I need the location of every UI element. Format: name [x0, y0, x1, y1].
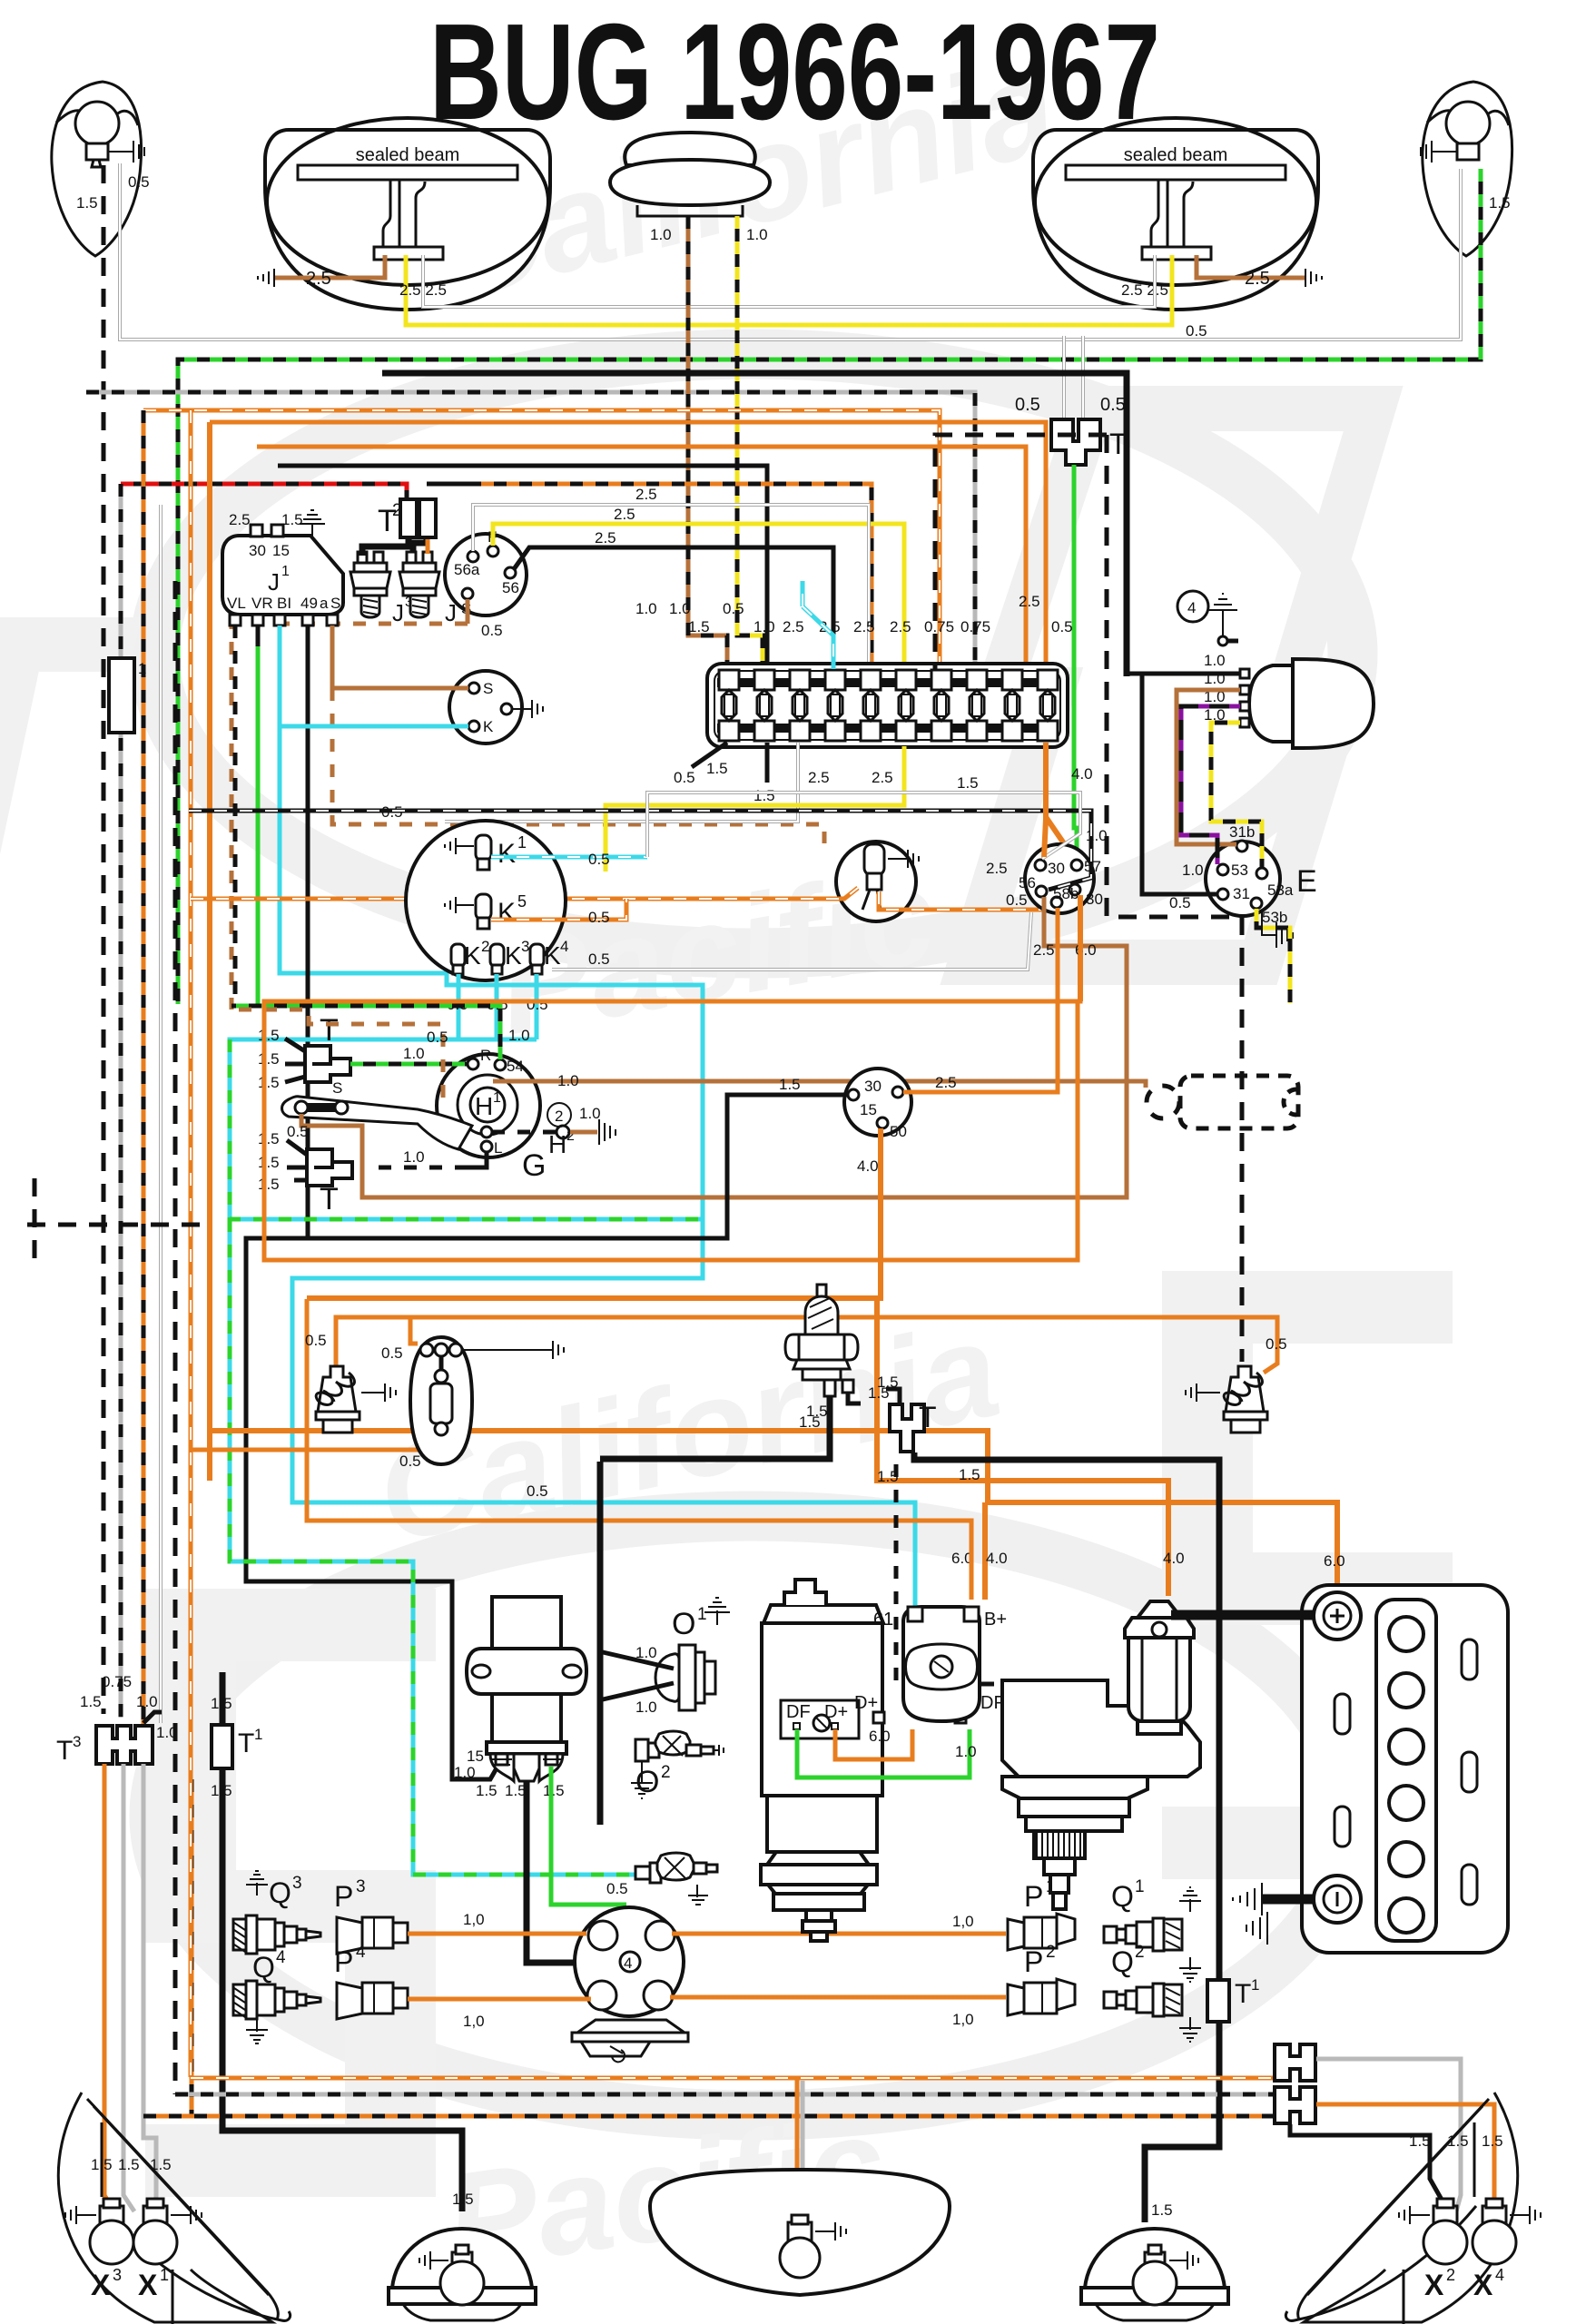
svg-text:3: 3: [292, 1874, 302, 1893]
spark plug Q1: [1104, 1887, 1201, 1982]
svg-text:0.5: 0.5: [1006, 891, 1028, 909]
svg-text:0.5: 0.5: [427, 1029, 448, 1046]
wire cyan lamps down: [230, 974, 537, 1219]
svg-text:1.0: 1.0: [669, 600, 691, 617]
spark plug Q3: [246, 1871, 268, 1896]
wire brown 0.5 stalk: [301, 1114, 362, 1197]
svg-text:2: 2: [392, 501, 402, 520]
svg-text:0.75: 0.75: [960, 618, 990, 635]
svg-text:56: 56: [1019, 874, 1036, 891]
svg-text:0.5: 0.5: [723, 600, 744, 617]
svg-text:0.5: 0.5: [527, 996, 548, 1013]
svg-text:2: 2: [661, 1763, 671, 1782]
svg-text:0.5: 0.5: [305, 1332, 327, 1349]
svg-text:2.5: 2.5: [635, 486, 657, 503]
wire orange-black dashed 0.75: [143, 410, 940, 669]
switch headlight: [1025, 844, 1094, 913]
lamp license plate right: [1085, 2229, 1225, 2288]
wire cyan-white 0.5 into fuse: [803, 606, 833, 669]
wire black-green dashed right turn signal: [178, 169, 1481, 1004]
svg-text:B+: B+: [984, 1610, 1007, 1630]
spark plug Q2: [1104, 1984, 1201, 2042]
generator C: [763, 1605, 883, 1623]
svg-text:1.0: 1.0: [136, 1693, 158, 1710]
svg-text:0.75: 0.75: [102, 1673, 132, 1690]
wire green coil terminal 1: [551, 1767, 626, 1905]
svg-text:T: T: [919, 1401, 937, 1433]
wire black L: [468, 1152, 487, 1167]
connector H1 bottom: [1275, 2044, 1315, 2081]
wire orange-white dashed left: [189, 410, 193, 2077]
wire white headlights high beam: [423, 255, 1155, 307]
wire black brake T: [848, 1389, 900, 1403]
lamp X3: [65, 2199, 133, 2264]
svg-text:P: P: [334, 1880, 353, 1913]
lamp fuel gauge: [836, 842, 916, 921]
connector T lower: [307, 1149, 352, 1186]
fuel filter: [1125, 1601, 1194, 1638]
fender rear left: [58, 2093, 290, 2324]
wire black dashed left stub: [27, 1178, 211, 1271]
svg-text:2: 2: [555, 1108, 563, 1125]
svg-text:2.5: 2.5: [595, 529, 616, 547]
svg-text:O: O: [672, 1607, 695, 1641]
wire black-yellow wiper: [1211, 723, 1262, 868]
svg-text:E: E: [1296, 864, 1317, 899]
svg-text:1: 1: [1135, 1877, 1145, 1896]
fuel tank sender: [650, 2170, 950, 2295]
connector H2 bottom: [1275, 2087, 1315, 2123]
svg-text:D+: D+: [854, 1693, 878, 1713]
relay circle headlight dimmer relay: [445, 534, 527, 615]
wire black engine frame vertical: [597, 1462, 604, 1825]
switch J3: [350, 563, 390, 596]
svg-text:31: 31: [1233, 885, 1250, 902]
svg-text:4: 4: [276, 1948, 286, 1967]
svg-text:4.0: 4.0: [986, 1550, 1008, 1567]
wire grey-black dashed to T3: [119, 484, 123, 1718]
wire fuel sender orange: [795, 2078, 800, 2222]
svg-text:S: S: [483, 680, 493, 697]
generator C: [761, 1580, 883, 1941]
svg-text:Q: Q: [252, 1951, 275, 1984]
switch brake light: [817, 1285, 826, 1299]
wire brown dashed 0.5: [231, 1009, 443, 1098]
cable end P1: [1008, 1914, 1075, 1950]
wire brown ground left headlight: [274, 255, 385, 278]
ground E: [1262, 910, 1293, 948]
switch headlight switch: [1019, 844, 1103, 913]
svg-text:2: 2: [1046, 1943, 1056, 1962]
starter motor B: [1002, 1680, 1200, 1777]
svg-text:1.0: 1.0: [635, 1644, 657, 1661]
svg-text:1: 1: [281, 564, 290, 579]
svg-text:K: K: [497, 839, 516, 869]
lamps K2 K3 K4: [451, 944, 465, 974]
svg-text:1.0: 1.0: [754, 618, 775, 635]
distributor: [572, 1907, 688, 2062]
battery A: [1302, 1585, 1508, 1953]
wire bottom bundle orange-white: [191, 2076, 1273, 2081]
fuel gauge lamp circle: [836, 842, 919, 921]
stalk S: [282, 1097, 473, 1149]
spark plug Q2: [1104, 1984, 1164, 2016]
svg-text:1.5: 1.5: [1409, 2132, 1431, 2150]
svg-text:1.0: 1.0: [635, 600, 657, 617]
wire bottom bundle grey-black: [175, 2093, 1276, 2097]
svg-text:1.5: 1.5: [476, 1782, 497, 1799]
svg-text:T: T: [320, 1013, 339, 1048]
wire orange plug3: [408, 1932, 586, 1936]
spark plug Q3: [233, 1871, 320, 1954]
svg-text:1.0: 1.0: [1182, 862, 1204, 879]
svg-text:4.0: 4.0: [857, 1157, 879, 1175]
svg-text:30: 30: [1048, 860, 1065, 877]
svg-text:4: 4: [560, 938, 568, 955]
dashed black box wiper: [1107, 435, 1242, 1362]
svg-text:15: 15: [467, 1748, 484, 1765]
wire brown dashed J2-S: [231, 624, 468, 1009]
lamp K2: [451, 944, 465, 967]
wire black 1.0 to 31: [1142, 676, 1217, 894]
wire white left 0.75: [159, 505, 163, 1723]
wire green-black 54 up: [231, 1006, 500, 1059]
svg-text:2.5: 2.5: [808, 769, 830, 786]
wire orange generator D+: [835, 1729, 912, 1759]
svg-text:1.5: 1.5: [806, 1403, 828, 1420]
relay J2: [399, 563, 439, 596]
svg-text:1.5: 1.5: [258, 1074, 280, 1091]
svg-text:61: 61: [873, 1610, 893, 1630]
svg-text:BUG 1966-1967: BUG 1966-1967: [429, 0, 1160, 148]
cable end P3: [337, 1917, 408, 1954]
wire brown wiper: [1177, 690, 1240, 844]
svg-text:X: X: [91, 2269, 111, 2301]
wire green 1.0 to light switch: [1074, 465, 1077, 861]
fuel filter component: [1125, 1601, 1194, 1734]
wire black wiper feed: [1127, 674, 1240, 894]
svg-text:1.5: 1.5: [452, 2191, 474, 2208]
lamp interior light W1: [410, 1337, 564, 1464]
wire black 1.5 ignition 15: [246, 1095, 848, 1779]
svg-text:0.5: 0.5: [1051, 618, 1073, 635]
wire black from 56: [514, 547, 833, 669]
wires out of fuse box bottom: [692, 743, 727, 767]
lamp X3 tail light: [100, 2206, 123, 2224]
wire orange to X4: [1316, 2104, 1494, 2211]
svg-text:1,0: 1,0: [463, 2013, 485, 2030]
connector T1 right: [1207, 1980, 1229, 2022]
svg-text:a: a: [320, 595, 329, 612]
wire cyan-white to K1: [491, 855, 647, 860]
turn signal front right: [1421, 82, 1512, 256]
wire grey-black dashed 0.75: [86, 392, 975, 669]
wire orange B+ run: [307, 1299, 971, 1600]
svg-text:1: 1: [1251, 1976, 1259, 1994]
svg-text:sealed beam: sealed beam: [356, 145, 460, 165]
svg-text:2: 2: [1135, 1943, 1145, 1962]
svg-text:1.5: 1.5: [118, 2156, 140, 2173]
svg-text:3: 3: [73, 1733, 81, 1750]
wires T2 to J3: [362, 537, 427, 556]
connector T3: [96, 1726, 153, 1764]
lamp K5 turn indicator: [476, 894, 491, 920]
wire orange plug4: [408, 1997, 591, 2002]
starter B: [1002, 1680, 1200, 1909]
svg-text:K: K: [505, 941, 522, 970]
svg-text:T: T: [238, 1728, 254, 1758]
svg-text:1: 1: [493, 1090, 501, 1106]
svg-text:56a: 56a: [454, 561, 480, 578]
wire orange 2.5 ignition 30: [903, 1001, 1058, 1092]
svg-text:2: 2: [481, 938, 489, 955]
svg-text:1,0: 1,0: [952, 1913, 974, 1930]
svg-text:1,0: 1,0: [463, 1911, 485, 1928]
wire brown ground right headlight: [1197, 255, 1305, 278]
cable end P2: [1008, 1979, 1075, 2015]
fender rear left: [58, 2093, 272, 2322]
svg-text:2.5: 2.5: [935, 1074, 957, 1091]
svg-text:0.5: 0.5: [1266, 1335, 1287, 1353]
lamp license dome 1: [389, 2229, 536, 2320]
svg-text:1.5: 1.5: [76, 194, 98, 212]
switch ignition: [844, 1068, 911, 1136]
svg-text:1,0: 1,0: [952, 2011, 974, 2028]
lamp X4: [1473, 2199, 1541, 2264]
lamp K1: [445, 835, 491, 870]
svg-text:1.5: 1.5: [877, 1468, 899, 1485]
svg-text:4: 4: [1495, 2266, 1504, 2284]
svg-text:15: 15: [860, 1101, 877, 1118]
svg-text:H: H: [475, 1092, 493, 1120]
svg-text:1.0: 1.0: [403, 1148, 425, 1166]
svg-text:2.5: 2.5: [1245, 269, 1270, 289]
connector T2 double: [400, 499, 417, 537]
svg-text:T: T: [1235, 1979, 1251, 2009]
wire orange to K5: [491, 899, 626, 920]
svg-text:1.5: 1.5: [1482, 2132, 1503, 2150]
wire black 30 heavy: [382, 373, 1127, 676]
svg-text:6.0: 6.0: [869, 1728, 891, 1745]
connector T brake: [890, 1404, 924, 1452]
svg-text:1.0: 1.0: [650, 226, 672, 243]
svg-text:3: 3: [521, 938, 529, 955]
svg-text:0.5: 0.5: [287, 1123, 309, 1140]
wire orange battery 6.0 run: [210, 1431, 1337, 1614]
wire brown H2 ground: [570, 1130, 597, 1135]
wiper motor V: [1249, 665, 1293, 742]
wire brown J1-S to dimmer S: [332, 625, 468, 688]
switch J3b: [399, 552, 466, 626]
svg-text:P: P: [1024, 1880, 1043, 1913]
svg-text:1.5: 1.5: [1489, 194, 1511, 212]
svg-text:6.0: 6.0: [1324, 1552, 1345, 1570]
horn: [610, 133, 770, 216]
svg-text:1.0: 1.0: [746, 226, 768, 243]
svg-text:1.5: 1.5: [959, 1466, 980, 1483]
svg-text:1.5: 1.5: [706, 760, 728, 777]
svg-text:Q: Q: [1111, 1945, 1134, 1978]
svg-text:49: 49: [300, 595, 318, 612]
svg-text:DF: DF: [786, 1702, 811, 1722]
svg-text:2.5 2.5: 2.5 2.5: [1121, 281, 1168, 299]
sender oil pressure switch: [635, 1866, 650, 1879]
svg-text:1.0: 1.0: [403, 1045, 425, 1062]
svg-text:L: L: [494, 1139, 502, 1157]
svg-text:1.0: 1.0: [635, 1699, 657, 1716]
fender rear right: [1285, 2093, 1517, 2324]
cable end P4: [337, 1983, 408, 2019]
wire black to X2: [1290, 2124, 1445, 2206]
switch E wiper switch: [1206, 823, 1317, 926]
svg-text:4.0: 4.0: [1071, 765, 1093, 783]
svg-text:2: 2: [1446, 2266, 1455, 2284]
svg-text:1.0: 1.0: [508, 1027, 530, 1044]
svg-text:T: T: [56, 1736, 73, 1766]
svg-text:2.5: 2.5: [783, 618, 804, 635]
svg-text:4: 4: [356, 1943, 366, 1962]
switch dimmer circle: [449, 671, 522, 743]
wire orange below T3 to X3: [104, 1764, 114, 2211]
ground wiper: [1208, 594, 1237, 635]
wire brown from S: [466, 599, 470, 624]
svg-text:0.5: 0.5: [588, 851, 610, 868]
svg-text:54: 54: [507, 1058, 524, 1075]
svg-text:30: 30: [249, 542, 266, 559]
svg-text:2.5: 2.5: [872, 769, 893, 786]
wire bottom bundle orange-black: [143, 2114, 1282, 2119]
svg-text:56: 56: [502, 579, 519, 596]
connector T1 left: [109, 658, 134, 733]
lamp X4 tail light: [1482, 2206, 1506, 2224]
switch brake light F: [785, 1285, 858, 1396]
svg-text:3: 3: [113, 2266, 122, 2284]
fuse box N: [707, 664, 1068, 747]
svg-text:1.0: 1.0: [557, 1072, 579, 1089]
svg-text:15: 15: [272, 542, 290, 559]
fuse box N: [707, 664, 1068, 747]
wire red-black dashed: [121, 484, 407, 501]
wires below J1: [233, 625, 238, 1003]
fuse J1 headlight relay: [222, 536, 343, 615]
spark plug Q1: [1104, 1918, 1164, 1951]
wire orange plug2: [670, 1995, 1006, 2000]
wire black-white dashed 2.5 to switch 56: [189, 811, 1091, 890]
svg-text:1.5: 1.5: [779, 1076, 801, 1093]
lamp X2 tail light: [1433, 2206, 1457, 2224]
svg-text:0.5: 0.5: [399, 1452, 421, 1470]
svg-text:2.5: 2.5: [890, 618, 911, 635]
wire black T1 bottom vertical: [222, 1672, 462, 2211]
lamp K5: [445, 894, 491, 929]
lamp X2: [1399, 2199, 1467, 2264]
lamp K4: [530, 944, 544, 967]
switch G circle: [437, 1054, 540, 1157]
svg-text:5: 5: [517, 892, 527, 911]
fuse element 1: [719, 670, 739, 690]
svg-text:J: J: [392, 599, 404, 626]
svg-text:K: K: [544, 941, 561, 970]
svg-text:0.5: 0.5: [588, 909, 610, 926]
distributor: [575, 1907, 684, 2016]
battery A: [1302, 1585, 1508, 1953]
svg-text:X: X: [138, 2269, 158, 2301]
wire orange interior light 0.5: [191, 1436, 438, 1450]
wire orange-white dashed 0.5 to fuel gauge: [191, 888, 858, 899]
svg-text:P: P: [1024, 1945, 1043, 1978]
svg-text:D+: D+: [824, 1702, 848, 1722]
svg-text:1.5: 1.5: [688, 618, 710, 635]
wire orange 4.0 ignition 50: [307, 1128, 1168, 1596]
fender rear right: [1304, 2093, 1518, 2322]
wire white to K cluster: [552, 912, 1031, 970]
svg-text:2.5: 2.5: [1019, 593, 1040, 610]
ignition coil with bracket: [454, 1597, 586, 1799]
lamp K1 high beam indicator: [476, 835, 491, 861]
wire orange door switches 0.5: [336, 1317, 1277, 1373]
svg-text:K: K: [497, 898, 516, 928]
wire black battery minus ground: [1262, 1895, 1314, 1905]
voltage regulator D: [903, 1607, 980, 1721]
svg-text:3: 3: [356, 1877, 366, 1896]
svg-text:2.5: 2.5: [229, 511, 251, 528]
svg-text:1: 1: [517, 833, 527, 852]
lamp license dome 2: [1081, 2229, 1228, 2320]
ground symbol J1: [300, 510, 325, 538]
svg-text:VL: VL: [227, 595, 246, 612]
wire black dashed left turn signal 1.5: [102, 165, 106, 1714]
wire green-black R: [350, 1062, 468, 1067]
svg-text:1.5: 1.5: [258, 1154, 280, 1171]
sender O2 oil pressure: [635, 1739, 648, 1761]
gauge O1 oil warning sender: [603, 1598, 730, 1716]
wire black-purple wiper: [1181, 706, 1240, 864]
radio dashed: [1147, 1076, 1298, 1128]
svg-text:P: P: [334, 1945, 353, 1978]
svg-text:1.5: 1.5: [80, 1693, 102, 1710]
svg-text:30: 30: [1086, 891, 1103, 908]
headlight left: [265, 118, 550, 310]
svg-text:1: 1: [254, 1726, 262, 1743]
instrument cluster K: [406, 821, 566, 980]
svg-text:1.0: 1.0: [1204, 652, 1226, 669]
svg-text:4.0: 4.0: [1163, 1550, 1185, 1567]
svg-text:1.5: 1.5: [957, 774, 979, 792]
svg-text:K: K: [483, 718, 494, 735]
svg-text:50: 50: [890, 1123, 907, 1140]
svg-text:Q: Q: [1111, 1880, 1134, 1913]
svg-text:0.5: 0.5: [1169, 894, 1191, 911]
svg-text:K: K: [464, 941, 481, 970]
sender O2 oil pressure: [631, 1731, 724, 1799]
turn signal front left: [52, 82, 144, 256]
svg-text:S: S: [330, 595, 340, 612]
svg-text:4: 4: [1187, 599, 1196, 616]
svg-text:X: X: [1424, 2269, 1444, 2301]
svg-text:1.0: 1.0: [156, 1724, 178, 1741]
ignition coil: [492, 1597, 561, 1742]
svg-text:1.5: 1.5: [258, 1050, 280, 1068]
lamp K3: [490, 944, 504, 967]
wire white turn signals 0.5: [120, 163, 1461, 340]
lamp X1: [133, 2199, 202, 2264]
connector T1 bottom left: [212, 1725, 232, 1768]
svg-text:2.5: 2.5: [1033, 941, 1055, 959]
svg-text:1: 1: [697, 1605, 707, 1624]
svg-text:1.5: 1.5: [754, 787, 775, 804]
cable end P1: [1008, 1914, 1075, 1950]
wire orange plug1: [672, 1932, 1006, 1936]
